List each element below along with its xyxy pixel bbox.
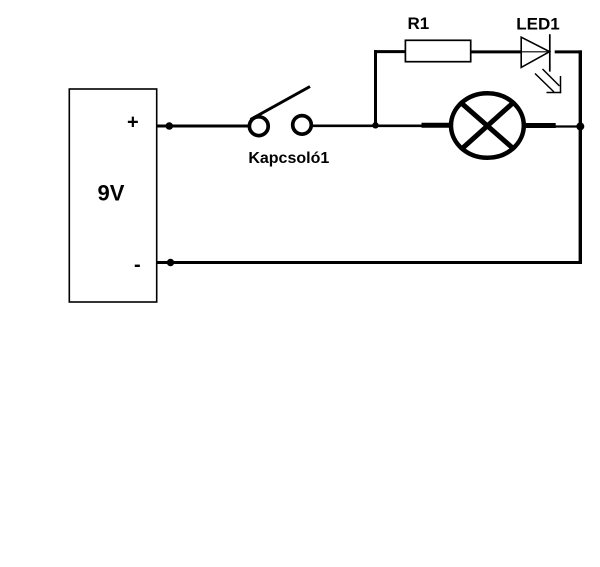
junction dot at - terminal [167,259,174,266]
battery B1 body [69,89,156,302]
svg-text:R1: R1 [408,14,430,33]
lamp left lead [422,123,451,128]
wire lamp to right vertical [555,125,580,127]
LED arrow head vertical stroke [560,76,562,93]
resistor R1 body [405,40,470,61]
switch Kapcsoló1 left contact [249,117,268,136]
wire LED cathode to top right corner [555,50,582,53]
junction dot at + terminal [166,122,174,130]
svg-text:LED1: LED1 [516,14,559,33]
LED D1 anode thin lead through triangle [521,51,550,53]
lamp body circle [451,93,524,158]
LED D1 triangle [521,37,549,67]
wire from switch to lamp [313,125,424,128]
junction dot node above switch wire [372,122,378,128]
switch lever [251,87,311,120]
wire resistor to LED anode [471,50,522,53]
switch Kapcsoló1 right contact [293,116,312,135]
wire to resistor R1 left lead [374,50,406,53]
bottom return wire to - terminal [156,261,582,264]
lamp cross stroke 2 [456,97,520,155]
wire right side vertical [579,50,582,264]
wire from + terminal to switch [156,125,249,128]
wire junction up to resistor branch (vertical) [374,50,377,126]
LED light arrow shaft upper [543,69,560,86]
lamp right lead [526,123,556,128]
junction dot right side [576,122,584,130]
LED light arrow shaft lower [535,74,554,93]
svg-text:+: + [127,111,139,133]
lamp cross stroke 1 [455,98,520,155]
svg-text:-: - [134,254,141,276]
svg-text:9V: 9V [98,180,125,205]
LED arrow head horizontal stroke [547,92,562,94]
svg-text:Kapcsoló1: Kapcsoló1 [248,150,329,167]
LED D1 cathode bar [549,34,551,71]
